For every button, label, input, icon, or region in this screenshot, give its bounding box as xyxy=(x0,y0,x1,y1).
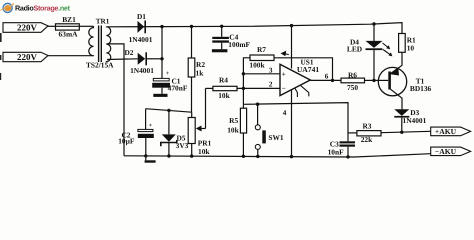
svg-text:750: 750 xyxy=(347,83,358,92)
transistor T1 BD136 xyxy=(374,52,432,109)
svg-text:−: − xyxy=(282,85,286,93)
svg-text:10k: 10k xyxy=(227,126,239,135)
svg-text:R6: R6 xyxy=(348,70,357,79)
node pin 3 wire xyxy=(243,67,280,75)
svg-text:R7: R7 xyxy=(257,45,266,54)
resistor R4 10k xyxy=(206,76,281,100)
transformer TR1 TS2/15A xyxy=(86,17,114,69)
pin 4 ground wire xyxy=(283,90,292,157)
scan edge marks xyxy=(0,33,2,80)
svg-text:+: + xyxy=(282,70,286,78)
svg-text:+: + xyxy=(166,70,170,77)
diode D2 1N4001 xyxy=(124,48,154,75)
svg-text:470nF: 470nF xyxy=(168,83,188,92)
svg-text:10nF: 10nF xyxy=(328,148,345,157)
core xyxy=(98,26,100,63)
wire sense line xyxy=(243,103,348,142)
wire D2 cathode to riser xyxy=(147,58,162,60)
svg-text:RadioStorage.net: RadioStorage.net xyxy=(15,4,71,13)
ground chassis bar xyxy=(145,156,147,161)
pin 7 supply wire xyxy=(281,26,292,69)
wire fuse to transformer primary top xyxy=(79,25,93,27)
svg-text:−AKU: −AKU xyxy=(435,147,457,156)
capacitor C2 10uF xyxy=(118,109,155,163)
wire ground rail to -AKU xyxy=(354,154,431,157)
svg-text:R4: R4 xyxy=(219,76,228,85)
wire 220V line 2 to transformer primary bottom xyxy=(47,55,94,57)
svg-text:1N4001: 1N4001 xyxy=(130,66,154,75)
svg-text:100k: 100k xyxy=(249,60,265,69)
svg-text:10k: 10k xyxy=(198,147,210,156)
svg-text:SW1: SW1 xyxy=(268,133,284,142)
svg-text:UA741: UA741 xyxy=(297,65,320,74)
terminal 220V input 1 xyxy=(3,22,48,32)
svg-text:10µF: 10µF xyxy=(118,137,135,146)
terminal 220V input 2 xyxy=(3,52,48,62)
svg-text:TR1: TR1 xyxy=(96,17,110,25)
potentiometer PR1 10k xyxy=(188,88,211,156)
svg-text:1N4001: 1N4001 xyxy=(129,35,153,44)
primary winding xyxy=(89,26,94,56)
resistor R3 22k xyxy=(348,122,431,144)
wire main positive top rail xyxy=(107,23,402,34)
svg-text:R5: R5 xyxy=(229,116,238,125)
logo RadioStorage.net xyxy=(1,3,71,13)
op-amp US1 UA741 xyxy=(280,58,319,96)
svg-text:100mF: 100mF xyxy=(228,40,250,49)
svg-text:63mA: 63mA xyxy=(59,30,79,39)
LED D4 xyxy=(347,24,393,80)
pin 1/5 offset stubs xyxy=(295,86,309,97)
svg-text:10: 10 xyxy=(407,43,415,52)
fuse BZ1 xyxy=(56,15,80,38)
wire transformer secondary bottom to D2 xyxy=(107,58,138,61)
resistor R1 10 xyxy=(399,34,416,53)
svg-text:10k: 10k xyxy=(218,91,230,100)
diode D3 1N4001 xyxy=(394,108,426,132)
resistor R6 750 xyxy=(341,70,374,91)
wire bottom ground rail xyxy=(124,156,354,157)
svg-text:3: 3 xyxy=(269,67,273,75)
svg-text:4: 4 xyxy=(283,109,287,117)
resistor R7 100k feedback xyxy=(243,45,332,105)
terminal -AKU xyxy=(431,147,471,156)
terminal +AKU xyxy=(431,127,471,136)
svg-text:TS2/15A: TS2/15A xyxy=(86,60,114,69)
wire riser D2 line to top rail xyxy=(161,27,163,59)
svg-text:22k: 22k xyxy=(361,135,373,144)
node pin 6 output wire xyxy=(310,73,341,81)
wire 220V line 1 to fuse xyxy=(47,25,56,27)
zener diode D5 3V3 xyxy=(161,110,189,155)
svg-text:+: + xyxy=(149,123,153,129)
switch SW1 xyxy=(255,104,284,157)
wire transformer center tap xyxy=(106,44,124,156)
capacitor C3 10nF xyxy=(328,140,355,157)
svg-text:3V3: 3V3 xyxy=(176,141,189,150)
capacitor C1 470nF xyxy=(152,59,188,97)
svg-text:BZ1: BZ1 xyxy=(62,15,76,24)
diode D1 1N4001 xyxy=(129,12,153,44)
capacitor C4 100mF xyxy=(212,26,251,52)
svg-text:220V: 220V xyxy=(17,52,38,62)
secondary winding xyxy=(106,27,110,62)
svg-text:1k: 1k xyxy=(196,69,205,78)
wire zener reference line xyxy=(146,109,192,113)
svg-text:220V: 220V xyxy=(17,22,38,32)
resistor R2 1k xyxy=(188,27,205,113)
svg-text:R3: R3 xyxy=(362,122,371,131)
resistor R5 10k xyxy=(227,104,246,156)
svg-text:BD136: BD136 xyxy=(410,84,432,93)
svg-text:+AKU: +AKU xyxy=(435,127,457,136)
svg-text:D1: D1 xyxy=(137,12,146,21)
svg-text:D2: D2 xyxy=(124,48,133,57)
svg-text:LED: LED xyxy=(347,45,362,54)
svg-text:1N4001: 1N4001 xyxy=(403,116,427,125)
svg-text:2: 2 xyxy=(269,81,273,89)
svg-text:6: 6 xyxy=(325,73,329,81)
